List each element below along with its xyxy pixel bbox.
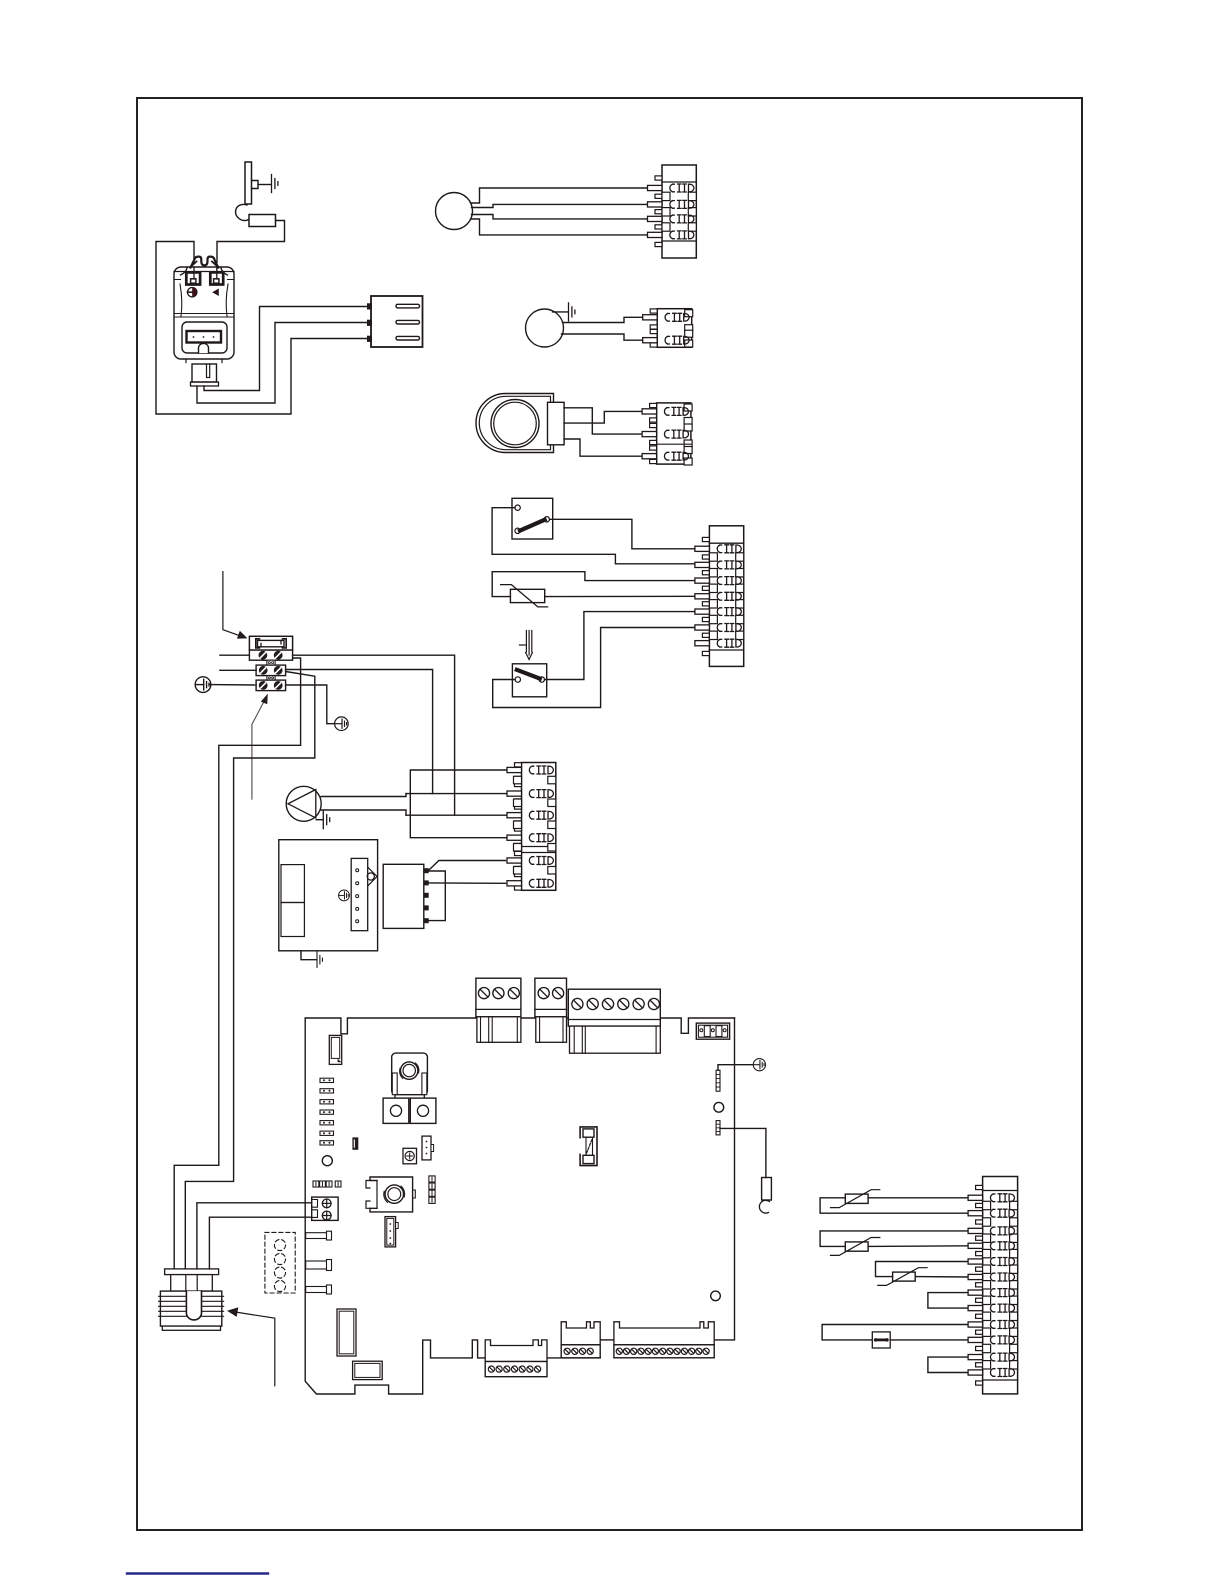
PCB fuse — [580, 1127, 597, 1166]
wire fan pin3 — [564, 439, 655, 456]
loop rows 7-8 — [928, 1293, 970, 1309]
wire stub row N left — [220, 669, 256, 671]
bottom connector C (13 screws) — [614, 1322, 714, 1358]
ground at sensor 2 — [553, 311, 569, 313]
loop rows 11-12 — [928, 1357, 970, 1372]
spark lead curl — [759, 1200, 769, 1213]
wire module pin2 to X1 row6 — [428, 882, 505, 884]
footer blue rule — [127, 1572, 268, 1574]
wire switch1 COM to X2 row1 — [550, 519, 696, 549]
terminal block TB2 (2-pole) — [535, 978, 567, 1042]
wire switch2 left to X2 row6 — [493, 628, 696, 708]
callout arrow to plug — [228, 1308, 275, 1386]
wire stub row L left — [220, 654, 250, 656]
optional connector dashed — [265, 1232, 295, 1293]
wire sensor pin1 — [471, 188, 650, 203]
mounting hole right — [714, 1102, 724, 1112]
4-pin header mid — [422, 1136, 434, 1160]
mounting hole — [322, 1156, 332, 1166]
fuse holder — [249, 636, 292, 650]
4-pin connector bottom — [385, 1217, 398, 1247]
wire earth circle to row earth — [210, 684, 256, 686]
suppressor resistor — [249, 215, 276, 227]
wire sensor2 pin2 — [562, 334, 651, 340]
wire fan pin1 — [564, 408, 655, 434]
earth symbol 2 — [335, 717, 349, 731]
NTC sensor (thermistor) — [501, 585, 548, 607]
bottom connector B (4 screws) — [561, 1322, 600, 1358]
ignition electrode — [245, 162, 271, 204]
flow switch (microswitch 2) — [512, 664, 546, 697]
wire thermistor right to X2 row4 — [545, 595, 696, 597]
component below relay — [353, 1361, 383, 1379]
mains terminal row earth — [256, 680, 286, 691]
relay RL1 — [383, 1098, 409, 1123]
wire T2 right to row4 — [868, 1245, 970, 1248]
jumper column of 4 — [429, 1176, 435, 1203]
pump — [286, 786, 321, 821]
wire sensor pin2 — [472, 204, 650, 207]
link switch rows 9-10 — [822, 1325, 970, 1340]
wire T3 left to row5 — [876, 1262, 970, 1277]
pin strip 2 — [716, 1121, 720, 1135]
wire row earth to earth symbol 2 — [286, 685, 335, 724]
pump ground — [316, 819, 323, 821]
fan box ground — [301, 951, 317, 960]
pressure switch (microswitch 1) — [512, 498, 553, 539]
wire module pin1 to X1 row5 — [428, 861, 505, 871]
wire row N right to plug wire2 — [185, 672, 314, 1270]
wire row L right to X1 row3 — [293, 655, 455, 815]
wire sensor pin4 — [471, 219, 650, 235]
fan control box — [279, 840, 378, 951]
PCB outline — [305, 1018, 734, 1394]
wire pump pin2 to X1 row3 — [321, 810, 407, 815]
transformer T2 — [366, 1177, 415, 1212]
connector X1 (6-way) — [507, 763, 556, 891]
polarized capacitor — [353, 1138, 358, 1149]
frame border — [137, 98, 1082, 1530]
earth symbol right of PCB — [753, 1059, 765, 1071]
earth symbol left — [195, 677, 211, 693]
transformer T1 — [392, 1053, 428, 1097]
wire sensor pin3 — [472, 215, 650, 219]
wire to earth symbol right — [718, 1065, 753, 1071]
connector X3 (3-way) — [642, 403, 692, 465]
suppressor coil lead — [236, 204, 249, 220]
wire T2 top to row3 — [820, 1231, 970, 1247]
X1 row3 feed line — [406, 814, 522, 816]
wire thermistor left to X2 row3 — [492, 572, 695, 597]
wire switch1 NC to X2 row2 — [492, 508, 695, 564]
mains terminal row L — [249, 650, 292, 660]
relay K1 — [329, 1035, 341, 1064]
connector X4 (4-way) — [648, 165, 697, 258]
callout arrow to fuse holder — [223, 572, 247, 639]
thermistor DHW NTC — [878, 1268, 927, 1286]
wire switch2 right to X2 row5 — [545, 612, 696, 680]
link between rows — [267, 660, 275, 665]
mains terminal row N — [256, 665, 286, 676]
earth terminal 2-pole on PCB — [312, 1197, 338, 1220]
relay bottom left — [337, 1309, 356, 1356]
callout arrow to terminal block — [252, 695, 267, 799]
solenoid coil under valve — [191, 364, 219, 386]
wire module pin1/pin5 bracket — [428, 871, 445, 921]
connector X5 (2-way) — [643, 309, 693, 348]
spark lead boot — [762, 1178, 772, 1201]
wire plug3 to PCB terminal — [197, 1203, 312, 1269]
wire row L right to plug wire1 — [174, 658, 300, 1269]
wire sensor2 pin1 — [563, 317, 651, 322]
terminal block TB1 (3-pole) — [476, 978, 521, 1042]
connector X2 (7-way) — [695, 526, 744, 667]
wire row N right to X1 row2 — [286, 670, 433, 794]
wire valve left terminal loop to connector pin3 — [156, 242, 368, 415]
wire solenoid pin B to connector pin2 — [197, 323, 368, 404]
bottom connector A (7 screws) — [485, 1340, 547, 1377]
pin strip 1 — [716, 1070, 720, 1091]
wire fan pin2 — [564, 411, 655, 423]
gas valve body — [174, 257, 234, 363]
footprint bars on PCB edge — [306, 1231, 332, 1294]
wire strip2 to spark lead — [720, 1128, 766, 1177]
mounting hole bottom right — [711, 1291, 721, 1301]
relay RL2 — [410, 1098, 436, 1123]
wire T1 top — [868, 1197, 970, 1199]
fan (oval body) — [476, 394, 564, 453]
ground (spark gap) — [272, 175, 278, 193]
trimmer potentiometer — [403, 1148, 417, 1164]
round sensor (safety thermostat) — [436, 193, 473, 230]
round sensor 2 (flue thermostat) — [526, 309, 564, 347]
jumper row of 4 — [313, 1181, 341, 1187]
jumper links column — [320, 1078, 334, 1145]
mains cable plug — [159, 1269, 224, 1330]
thermistor return NTC — [831, 1238, 880, 1256]
wire solenoid pin A to connector pin1 — [204, 307, 368, 391]
wire suppressor to valve right terminal — [217, 221, 285, 263]
3-pin plug connector — [368, 296, 423, 347]
wire T1 loop to row2 — [820, 1198, 970, 1213]
ignition module — [383, 864, 428, 928]
X1 row2 feed line — [406, 793, 522, 795]
X1 loop row1-row4 — [410, 770, 521, 838]
wire T3 right to row6 — [915, 1276, 969, 1278]
thermistor flow NTC — [831, 1190, 880, 1208]
wire plug4 to PCB terminal — [209, 1217, 311, 1269]
link between rows — [267, 676, 275, 681]
terminal block TB3 (6-pole) — [568, 989, 660, 1053]
flow direction arrow — [520, 631, 533, 660]
wire pump pin1 to X1 row2 — [321, 794, 406, 797]
3-pin header on PCB top right — [696, 1023, 729, 1039]
connector X7 (12-way) — [968, 1177, 1018, 1394]
